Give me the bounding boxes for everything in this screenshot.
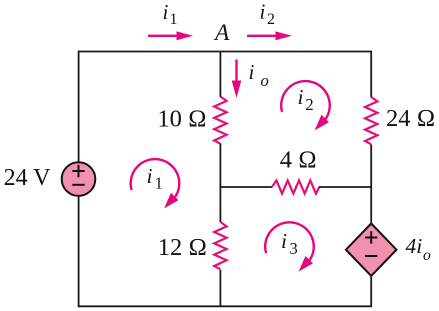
wire left upper [78,51,80,164]
wire middle vertical lower [219,270,221,306]
svg-text:4 Ω: 4 Ω [280,147,317,174]
resistor 4 Ohm [272,180,319,193]
svg-text:12 Ω: 12 Ω [158,234,207,261]
current arrow i1 (top left) [148,31,193,40]
wire middle vertical upper (node A stub) [219,52,221,98]
wire bottom [79,305,372,307]
wire top [79,51,372,53]
svg-text:3: 3 [290,239,298,258]
svg-text:i: i [281,229,287,253]
mesh loop arrow i2 [281,81,330,130]
svg-text:1: 1 [170,11,178,28]
dependent source 4io [346,224,397,276]
wire middle horizontal right [319,186,371,188]
svg-text:o: o [261,71,269,90]
mesh loop arrow i3 [265,222,314,271]
wire middle horizontal left [220,186,272,188]
svg-text:i: i [147,164,153,188]
wire right lower [370,275,372,308]
svg-text:4i: 4i [406,234,423,258]
svg-text:2: 2 [267,11,275,28]
svg-text:o: o [423,247,431,264]
mesh loop arrow i1 [131,159,180,208]
resistor 24 Ohm [365,97,377,144]
svg-text:A: A [213,20,230,46]
svg-text:i: i [163,0,169,24]
resistor 10 Ohm [214,97,226,144]
wire right mid [370,145,372,225]
svg-text:24 Ω: 24 Ω [386,105,435,132]
voltage source V1 24V [62,162,96,196]
svg-text:2: 2 [305,95,313,114]
current arrow i2 (top right) [247,31,292,40]
wire left lower [78,196,80,307]
wire right upper [370,51,372,98]
svg-text:i: i [298,85,304,109]
wire middle vertical mid [219,144,221,223]
svg-text:24 V: 24 V [4,165,52,191]
svg-text:1: 1 [155,174,163,193]
svg-text:i: i [249,60,255,84]
svg-text:10 Ω: 10 Ω [157,105,206,132]
current arrow io [232,60,242,99]
svg-text:i: i [260,0,266,24]
resistor 12 Ohm [214,222,226,269]
